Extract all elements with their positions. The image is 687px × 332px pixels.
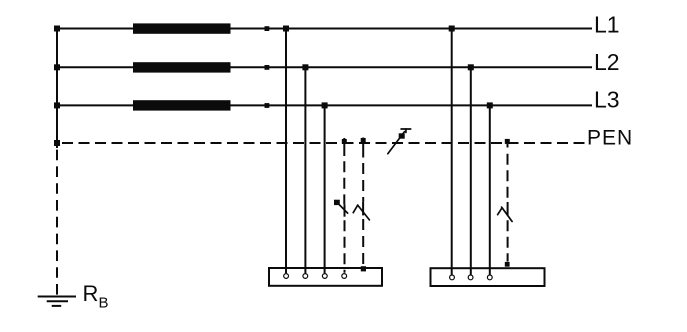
svg-text:R: R [83, 281, 99, 306]
svg-text:B: B [99, 295, 109, 312]
svg-text:L3: L3 [594, 86, 620, 112]
svg-text:PEN: PEN [587, 127, 633, 150]
svg-text:L1: L1 [594, 12, 620, 38]
svg-text:L2: L2 [594, 49, 620, 75]
